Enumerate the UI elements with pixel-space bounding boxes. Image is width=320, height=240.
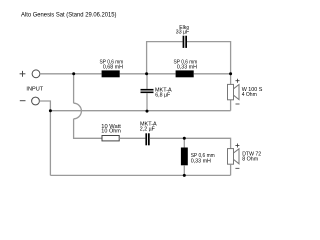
svg-text:2,2 µF: 2,2 µF (140, 126, 156, 132)
wire minus rail (50, 110, 230, 112)
speaker DTW 72 body (228, 149, 234, 165)
node A junction dot (72, 72, 75, 75)
resistor R1 10 Watt 10 Ohm (102, 136, 119, 141)
svg-text:6,8 µF: 6,8 µF (155, 92, 171, 98)
wire MKT-A 6.8uF top lead (146, 74, 148, 89)
capacitor C3 MKT-A 2,2 uF plates (145, 133, 149, 145)
wire MKT-A 6.8uF bottom lead (146, 93, 148, 111)
capacitor C2 MKT-A 6,8 uF plates (141, 89, 154, 93)
wire L3 bottom lead (183, 165, 185, 175)
wire bottom rail (50, 174, 230, 176)
node C junction dot (229, 72, 232, 75)
wire top rail from node B to L2 (147, 73, 176, 75)
speaker DTW 72 plus mark (235, 144, 239, 148)
inductor L2 SP 0,6 mm 0,33 mH (176, 70, 194, 77)
plus input terminal circle (32, 70, 40, 78)
wire tweeter branch node D to corner (184, 138, 230, 148)
svg-text:4 Ohm: 4 Ohm (242, 92, 257, 98)
inductor L1 SP 0,6 mm 0,68 mH (102, 70, 120, 77)
wire hop over minus rail (74, 103, 82, 119)
wire tweeter branch resistor to C3 (119, 137, 145, 139)
plus terminal symbol (20, 71, 26, 77)
node F junction dot (146, 110, 149, 113)
wire tweeter return lead (230, 164, 232, 175)
wire top rail from plus terminal to L1 (40, 73, 102, 75)
svg-text:8 Ohm: 8 Ohm (242, 156, 258, 162)
wire L3 top lead (183, 138, 185, 147)
speaker DTW 72 cone (234, 149, 240, 164)
svg-text:INPUT: INPUT (26, 87, 43, 93)
wire woofer return lead (230, 100, 232, 111)
svg-text:10 Ohm: 10 Ohm (101, 128, 121, 134)
wire vertical from node A to hop (73, 74, 75, 103)
minus input terminal circle (32, 97, 40, 105)
wire tweeter branch C3 to node D (150, 137, 185, 139)
svg-text:0,68 mH: 0,68 mH (103, 64, 123, 70)
wire woofer top lead (230, 74, 232, 85)
minus terminal symbol (20, 100, 26, 102)
wire top rail from L2 to node C (194, 73, 231, 75)
speaker W 100 S minus mark (236, 103, 240, 105)
wire vertical from hop to tweeter branch corner (74, 119, 102, 139)
node B junction dot (145, 72, 148, 75)
speaker W 100 S body (228, 84, 234, 99)
svg-text:Alto Genesis Sat (Stand 29.06.: Alto Genesis Sat (Stand 29.06.2015) (21, 11, 117, 18)
wire Elko branch right leg (187, 42, 231, 74)
inductor L3 SP 0,6 mm 0,33 mH (181, 148, 188, 166)
speaker W 100 S plus mark (236, 79, 240, 83)
speaker W 100 S cone (234, 85, 240, 100)
svg-text:33 µF: 33 µF (176, 30, 190, 36)
svg-text:0,33 mH: 0,33 mH (177, 64, 197, 70)
node G junction dot (183, 174, 186, 177)
node E junction dot (49, 109, 52, 112)
wire minus lead from input (39, 101, 50, 111)
wire left vertical to bottom rail (49, 111, 51, 176)
capacitor C1 Elko 33 uF plates (183, 36, 187, 48)
speaker DTW 72 minus mark (235, 167, 239, 169)
wire Elko branch left leg (147, 42, 183, 74)
node D junction dot (183, 137, 186, 140)
wire top rail from L1 to node B (120, 73, 147, 75)
svg-text:0,33 mH: 0,33 mH (191, 159, 211, 165)
